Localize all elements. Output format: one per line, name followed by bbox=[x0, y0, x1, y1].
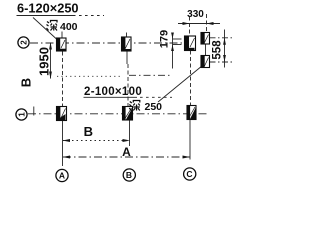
pile P4 small top bbox=[201, 33, 210, 45]
wire: row 1 centerline bbox=[28, 113, 208, 115]
arrow A left bbox=[63, 156, 71, 159]
dimension 558 line bbox=[224, 30, 226, 68]
svg-text:A: A bbox=[59, 171, 65, 181]
grid bubble A bbox=[56, 169, 68, 181]
wire: column B tick above pile bbox=[126, 33, 128, 38]
wire: column C extension below pile bbox=[189, 120, 191, 160]
arrow 330 right (outside pointing left) bbox=[207, 22, 214, 25]
grid bubble 2 bbox=[18, 37, 29, 48]
grid bubble 1 bbox=[16, 109, 27, 120]
pile P8 row1 col C bbox=[187, 106, 196, 120]
wire: small-pile row line / 558 top extension bbox=[210, 37, 234, 39]
svg-text:179: 179 bbox=[158, 30, 170, 48]
dimension 330 line bbox=[178, 23, 220, 25]
arrows bbox=[49, 22, 226, 159]
dimension 179 line bbox=[172, 34, 174, 69]
pile P2 row2 col B bbox=[122, 37, 132, 51]
arrow 558 top bbox=[223, 38, 226, 45]
arrow 558 bottom bbox=[223, 55, 226, 62]
wire: 558 bottom extension bbox=[210, 61, 234, 63]
svg-text:400: 400 bbox=[60, 21, 78, 33]
wire: mid construction dash line bbox=[129, 74, 172, 76]
svg-text:2: 2 bbox=[19, 40, 28, 45]
pile P3 row2 col C bbox=[185, 36, 196, 51]
wire: row 2 centerline bbox=[30, 42, 196, 44]
wire: column A tick above pile bbox=[61, 32, 63, 39]
svg-text:C: C bbox=[186, 169, 192, 179]
svg-text:558: 558 bbox=[211, 40, 223, 60]
svg-text:330: 330 bbox=[187, 9, 204, 20]
svg-text:B: B bbox=[126, 170, 132, 180]
svg-text:1: 1 bbox=[17, 112, 26, 117]
svg-text:2-100×100: 2-100×100 bbox=[84, 86, 142, 98]
wire: small pile column dashed extension above bbox=[206, 14, 208, 33]
grid bubble B bbox=[123, 169, 135, 181]
arrow A right bbox=[183, 156, 191, 159]
arrow 1950 bottom bbox=[49, 72, 52, 80]
label shen 400 (depth 400) bbox=[47, 21, 58, 31]
arrow 179 bottom bbox=[171, 45, 174, 51]
label shen 250 (depth 250) bbox=[129, 101, 140, 111]
grid bubble C bbox=[184, 168, 196, 180]
wire: tick at row 1 line start bbox=[33, 107, 35, 116]
pile P7 row1 col B bbox=[123, 107, 133, 121]
arrow B right bbox=[123, 139, 131, 142]
wire: mid construction dotted line left part bbox=[57, 75, 121, 77]
leader for 6-120x250 bbox=[33, 18, 57, 40]
underline of 6-120x250 bbox=[17, 15, 76, 17]
pile P5 small bottom bbox=[201, 56, 210, 68]
dimension A line bbox=[63, 156, 190, 158]
wire: column A dashed centerline between piles bbox=[62, 52, 64, 107]
svg-text:B: B bbox=[84, 124, 93, 139]
svg-text:250: 250 bbox=[145, 101, 163, 113]
wire: column A extension below pile bbox=[62, 121, 64, 167]
wire: column B dashed centerline between piles bbox=[126, 51, 128, 64]
arrow 330 left (outside pointing right) bbox=[183, 22, 190, 25]
pile P6 row1 col A bbox=[57, 107, 67, 121]
dimension 1950 line bbox=[50, 43, 52, 79]
arrow 179 top bbox=[171, 33, 174, 39]
wire: small pile column between piles bbox=[205, 44, 207, 56]
wire: column C dashed centerline between piles bbox=[190, 51, 192, 106]
svg-text:B: B bbox=[19, 78, 34, 87]
svg-text:6-120×250: 6-120×250 bbox=[17, 1, 79, 16]
leader for 2-100x100 bbox=[158, 66, 203, 103]
underline of 2-100x100 bbox=[84, 96, 138, 98]
wire: column B extension below pile bbox=[129, 120, 131, 146]
arrow 1950 top bbox=[49, 42, 52, 50]
svg-text:A: A bbox=[122, 145, 131, 159]
wire: column C dashed extension above pile bbox=[189, 17, 191, 37]
svg-text:1950: 1950 bbox=[36, 47, 51, 76]
arrow B left bbox=[63, 139, 71, 142]
dimension B line bbox=[63, 140, 130, 142]
pile P1 row2 col A bbox=[57, 38, 67, 51]
